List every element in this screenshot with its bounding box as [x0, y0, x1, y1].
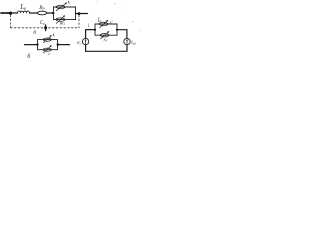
resistor X4 variable (box B bottom) [43, 48, 51, 51]
resistor X5 variable (box C top) [99, 22, 108, 25]
svg-text:eг: eг [77, 40, 81, 46]
wire dashed vertical left [10, 15, 12, 28]
wire dashed vertical right [78, 15, 80, 27]
node output junction [78, 12, 81, 15]
wire input left segment [1, 12, 11, 14]
speckles [97, 2, 141, 31]
svg-text:а: а [33, 29, 36, 35]
node box left [52, 12, 54, 14]
resistor X3 variable (box B top) [43, 38, 51, 41]
source E1 circle [82, 38, 88, 44]
svg-text:c: c [48, 51, 50, 56]
wire inductor to resistor [30, 12, 38, 14]
node box C left [94, 29, 96, 31]
source I1 arrow [126, 40, 128, 44]
wire в bottom loop [86, 45, 127, 52]
wire в top-left [86, 30, 95, 39]
wire б right lead [58, 44, 70, 46]
wire box A top branch [54, 6, 76, 8]
node box C right [116, 29, 118, 31]
wire to inductor [11, 12, 18, 14]
resistor X2 variable (bottom branch) [56, 18, 65, 21]
svg-text:б: б [27, 53, 31, 60]
wire box C bottom branch [95, 34, 117, 36]
svg-text:lб: lб [98, 17, 102, 24]
svg-text:жi: жi [59, 22, 64, 27]
inductor L1 [18, 11, 30, 13]
wire dashed bottom [11, 27, 79, 29]
wire box A right edge [75, 7, 77, 20]
wire в top-right corner [117, 30, 127, 39]
svg-text:Lб: Lб [19, 4, 27, 11]
node б right [57, 43, 59, 45]
wire box B outline [38, 40, 58, 50]
svg-text:Rр: Rр [38, 5, 44, 11]
node б left [36, 43, 38, 45]
wire output [76, 13, 88, 15]
resistor R1 [37, 11, 46, 15]
svg-text:Cб: Cб [40, 21, 45, 26]
resistor X6 variable (box C bottom) [100, 34, 109, 37]
wire box C top branch [95, 23, 117, 25]
wire box C left edge [94, 24, 96, 35]
resistor X1 variable (top branch) [56, 5, 65, 8]
svg-text:xб: xб [102, 37, 107, 43]
source E1 arrow [85, 40, 87, 44]
wire box C right edge [116, 24, 118, 35]
wire box A bottom branch [54, 19, 76, 21]
source I1 circle [124, 38, 130, 44]
svg-text:iаб: iаб [131, 41, 136, 46]
capacitor C1 tap on dashed wire [45, 25, 47, 31]
wire б left lead [25, 44, 38, 46]
wire resistor to box [47, 12, 54, 14]
wire box A left edge [53, 7, 55, 20]
node input junction [9, 12, 12, 15]
svg-text:i: i [88, 24, 90, 29]
